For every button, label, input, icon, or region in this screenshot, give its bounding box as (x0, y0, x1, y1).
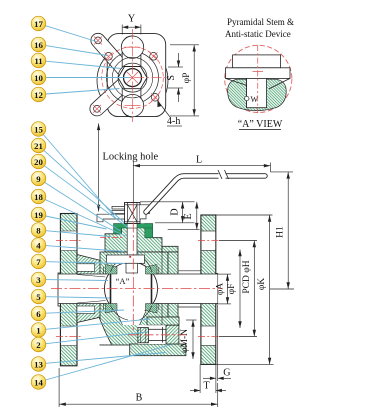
cavity dome arcs above ball (111, 257, 153, 273)
svg-text:9: 9 (36, 174, 41, 184)
T extension + line (199, 364, 201, 393)
S (168, 66, 183, 68)
B extension + line (58, 368, 60, 407)
arrowheads front view (59, 164, 290, 406)
H1 arrows (287, 172, 290, 179)
stem tang (126, 263, 138, 273)
corner hole TL (105, 53, 113, 61)
bracket hole top (locking hole) (95, 37, 102, 44)
svg-text:E: E (183, 213, 194, 219)
phiP (170, 44, 199, 46)
dimension H1 line (287, 172, 289, 289)
bracket hole bottom (94, 105, 101, 112)
corner hole BR (151, 94, 159, 102)
pyramid slant left (226, 78, 248, 85)
phiA arrows (226, 274, 229, 281)
svg-text:Y: Y (128, 14, 135, 25)
svg-text:17: 17 (34, 19, 43, 29)
ball chamber (103, 260, 159, 316)
svg-text:21: 21 (34, 141, 43, 151)
stem vertical centerline (132, 203, 134, 330)
svg-text:11: 11 (34, 56, 42, 66)
ball (105, 262, 158, 315)
svg-text:3: 3 (36, 275, 41, 285)
pad circle (107, 52, 159, 104)
svg-text:B: B (136, 393, 143, 404)
stem upper block (233, 55, 281, 68)
cavity below ball (116, 311, 146, 325)
handle hub (140, 205, 149, 219)
svg-text:Pyramidal Stem &: Pyramidal Stem & (227, 17, 294, 27)
svg-text:4-h: 4-h (167, 116, 180, 127)
handle top extension for H1 (271, 171, 294, 173)
pyramid slant right (269, 78, 290, 89)
packing gland left (green) (114, 224, 122, 234)
stem boss obround (122, 36, 141, 117)
stem circle (124, 69, 142, 87)
top plate (107, 34, 166, 117)
drain boss top (147, 317, 179, 325)
phiK extension + line (216, 214, 273, 216)
4-h leader (158, 101, 171, 118)
svg-text:“A”: “A” (116, 276, 130, 286)
stem hexagon (118, 67, 147, 89)
svg-text:W: W (251, 95, 259, 104)
svg-text:φK: φK (257, 278, 267, 290)
bore band right (white) (152, 274, 218, 304)
body top right step (162, 246, 178, 252)
G extension + line (215, 364, 217, 381)
svg-text:4: 4 (36, 240, 41, 250)
packing gland right (green) (145, 224, 153, 238)
top hole (121, 36, 143, 58)
svg-text:L: L (196, 155, 202, 166)
svg-text:φP: φP (182, 73, 192, 84)
dimension E line (196, 202, 198, 230)
svg-text:D: D (170, 208, 181, 215)
svg-text:Anti-static Device: Anti-static Device (225, 29, 291, 39)
stem block with X brace (125, 203, 141, 224)
corner hole TR (150, 53, 158, 61)
left flange bolt centerlines (56, 241, 81, 337)
svg-text:S: S (166, 75, 177, 81)
seat left bottom (106, 304, 118, 314)
E arrows (195, 202, 198, 209)
phiK arrows (268, 215, 271, 222)
svg-text:14: 14 (34, 377, 43, 387)
detail circle (red dashed) (225, 45, 292, 112)
handle lever (146, 176, 265, 212)
seat left top (106, 265, 118, 275)
svg-text:PCD φH: PCD φH (242, 260, 252, 293)
B arrows (59, 403, 66, 406)
PCD extension + line (219, 240, 257, 242)
phiF line (239, 250, 241, 329)
Locking hole label + leader (97, 123, 159, 211)
T arrows (194, 389, 200, 392)
cavity arcs below ball (111, 306, 153, 321)
svg-text:T: T (204, 381, 210, 392)
stem column white (127, 203, 137, 256)
right flange plate (201, 215, 218, 364)
L extension lines (132, 161, 134, 203)
stem flange block (226, 68, 291, 79)
svg-text:10: 10 (34, 73, 43, 83)
svg-text:H1: H1 (276, 226, 286, 238)
"A" label on ball (112, 275, 133, 288)
red centerlines top view (93, 29, 167, 122)
body central block (100, 252, 168, 345)
ball top hatched (228, 79, 287, 110)
phiM-N line (186, 319, 197, 321)
svg-text:18: 18 (34, 192, 43, 202)
svg-text:15: 15 (34, 124, 43, 134)
drain plug (138, 325, 179, 344)
locking plate tabs (97, 206, 150, 221)
anti-static ball (245, 96, 249, 100)
body bonnet (105, 226, 162, 252)
stem lower (247, 78, 267, 107)
G arrows (210, 377, 216, 380)
svg-text:“A” VIEW: “A” VIEW (238, 119, 283, 130)
svg-text:G: G (223, 368, 230, 379)
svg-text:20: 20 (34, 157, 43, 167)
L arrows (133, 164, 140, 167)
svg-text:2: 2 (36, 340, 41, 350)
body bottom-left curve (99, 318, 111, 344)
phiA extension + line (218, 273, 231, 275)
seat right bottom (146, 304, 158, 314)
body right wall (168, 252, 178, 317)
svg-text:19: 19 (34, 210, 43, 220)
left flange plate (58, 214, 77, 366)
dimension labels front view (136, 155, 286, 404)
stem collar (107, 255, 145, 263)
right tube walls (178, 270, 201, 272)
svg-text:φM-N: φM-N (180, 329, 190, 353)
flange circle (97, 45, 168, 116)
svg-text:8: 8 (36, 225, 41, 235)
chamber wall lines (102, 267, 104, 274)
right flange bolt centerlines (198, 241, 219, 337)
handle break mark (219, 171, 226, 180)
counterbore notch left (77, 264, 95, 272)
svg-text:12: 12 (34, 90, 43, 100)
D arrows (181, 202, 184, 209)
bore band left (white) (59, 274, 112, 304)
svg-text:5: 5 (36, 292, 41, 302)
svg-text:φF: φF (227, 284, 237, 295)
D reference lines (140, 201, 195, 203)
Y (121, 25, 123, 35)
bottom hole (121, 94, 143, 116)
body joint lines right of chamber (161, 252, 163, 274)
svg-text:φA: φA (215, 283, 225, 295)
PCD arrows (253, 241, 256, 248)
svg-text:13: 13 (34, 359, 43, 369)
body left neck (77, 255, 103, 323)
pad raised circle (112, 57, 153, 98)
gland bolt centerline (100, 237, 124, 239)
counterbore notch left bottom (77, 306, 95, 314)
top view dimensions (122, 25, 199, 127)
detail centerline (257, 45, 259, 113)
seat right top (146, 265, 158, 275)
stem boss circle (118, 63, 147, 92)
svg-text:Locking hole: Locking hole (103, 152, 159, 163)
dimension D line (182, 202, 184, 223)
drain centerline (128, 334, 188, 336)
svg-text:6: 6 (36, 309, 41, 319)
bore taper lines left (77, 275, 106, 278)
dimension L line (133, 165, 270, 167)
phiM-N arrows (191, 320, 194, 327)
phiF arrows (238, 250, 241, 257)
drain boss bottom (130, 344, 186, 356)
gland plate strip (green) (114, 224, 153, 228)
main horizontal centerline (51, 288, 222, 290)
svg-text:16: 16 (34, 40, 43, 50)
svg-text:7: 7 (36, 257, 41, 267)
svg-text:1: 1 (36, 325, 40, 335)
handle bracket (97, 40, 126, 108)
